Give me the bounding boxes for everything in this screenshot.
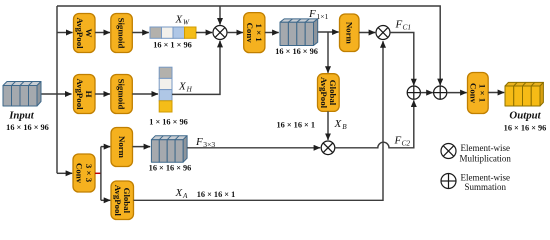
wire branch into top multiply [219, 6, 221, 25]
wire split to Global AvgPool bottom [101, 199, 110, 201]
svg-text:F: F [308, 8, 316, 20]
wire Sigmoid to X_W bar [132, 32, 149, 34]
svg-text:Norm: Norm [344, 22, 354, 45]
sum node 1 [407, 86, 420, 99]
box Norm top [340, 14, 360, 52]
box Norm bottom [111, 128, 133, 167]
wire split vertical [100, 147, 102, 201]
svg-text:Output: Output [509, 110, 541, 122]
box 1x1 Conv output [468, 73, 489, 114]
wire sum2 to output conv [447, 92, 467, 94]
svg-text:Norm: Norm [117, 136, 127, 159]
wire branch to 3x3 conv [57, 172, 72, 174]
svg-text:Conv: Conv [245, 23, 255, 44]
box W AvgPool [74, 14, 96, 53]
multiply node X_B [321, 141, 335, 155]
multiply node top [213, 26, 227, 40]
wire branch to W AvgPool [57, 32, 73, 34]
svg-text:Multiplication: Multiplication [459, 153, 511, 163]
box Global AvgPool middle [318, 74, 340, 112]
feature bar X_W [150, 27, 196, 38]
wire F_C1 to sum1 [390, 33, 414, 86]
svg-text:AvgPool: AvgPool [113, 185, 123, 217]
wire conv to output stack [488, 92, 504, 94]
wire sum1 to sum2 [420, 92, 432, 94]
box H AvgPool [74, 75, 96, 114]
tensor stack F1x1 [280, 19, 318, 46]
sum node 2 [434, 86, 447, 99]
svg-text:AvgPool: AvgPool [75, 78, 85, 110]
legend sum symbol [441, 174, 456, 189]
wire drop to Global AvgPool middle [327, 32, 329, 73]
svg-text:W: W [183, 19, 190, 27]
svg-text:B: B [342, 123, 347, 131]
box 3x3 Conv [73, 154, 95, 192]
wire residual top [57, 6, 440, 85]
svg-text:AvgPool: AvgPool [75, 17, 85, 49]
wire split to Norm bottom [101, 146, 110, 148]
wire X_A [134, 41, 384, 200]
svg-text:F: F [395, 19, 403, 31]
svg-text:1 × 16 × 96: 1 × 16 × 96 [149, 117, 188, 126]
svg-text:1×1: 1×1 [317, 12, 329, 21]
tensor stack F3x3 [151, 136, 187, 163]
svg-text:Conv: Conv [469, 83, 479, 104]
box 1x1 Conv top [244, 13, 265, 53]
svg-text:C1: C1 [403, 23, 412, 32]
legend multiply symbol [441, 144, 456, 159]
wire H AvgPool to Sigmoid middle [95, 93, 110, 95]
wire F1x1 to Norm [318, 31, 339, 33]
svg-text:F: F [394, 135, 402, 147]
wire F3x3 to X_B multiply [187, 147, 320, 149]
svg-text:16 × 16 × 96: 16 × 16 × 96 [275, 47, 318, 56]
wire multiply to 1x1 conv [227, 32, 243, 34]
svg-text:AvgPool: AvgPool [319, 77, 329, 109]
wire W AvgPool to Sigmoid [95, 32, 110, 34]
wire X_W bar to multiply [196, 32, 212, 34]
wire Sigmoid to X_H bar [132, 93, 158, 95]
box Global AvgPool bottom [111, 181, 134, 220]
svg-text:16 × 16 × 96: 16 × 16 × 96 [6, 123, 49, 132]
svg-text:X: X [334, 118, 343, 130]
svg-text:A: A [182, 192, 188, 200]
wire Global AvgPool to X_B multiply [327, 111, 329, 139]
wire conv to F1x1 stack [265, 32, 279, 34]
svg-text:F: F [195, 136, 203, 148]
svg-text:16 × 16 × 96: 16 × 16 × 96 [504, 123, 547, 132]
box Sigmoid top [111, 14, 133, 53]
svg-text:Input: Input [8, 110, 35, 122]
wire Norm to F3x3 stack [133, 146, 151, 148]
svg-text:Element-wise: Element-wise [460, 143, 509, 153]
wire Norm to F_C1 multiply [359, 32, 375, 34]
wire input to H AvgPool [41, 93, 72, 95]
svg-text:Sigmoid: Sigmoid [117, 79, 127, 110]
svg-text:Conv: Conv [75, 163, 85, 184]
svg-text:16 × 16 × 1: 16 × 16 × 1 [277, 121, 316, 130]
multiply node F_C1 [376, 26, 390, 40]
svg-text:16 × 1 × 96: 16 × 1 × 96 [153, 41, 192, 50]
svg-text:16 × 16 × 96: 16 × 16 × 96 [149, 163, 192, 172]
input tensor stack [3, 82, 41, 107]
wire X_H to top multiply [172, 41, 220, 95]
wire distribution vertical [56, 6, 58, 173]
output tensor stack [505, 82, 543, 106]
wire red segment [95, 172, 101, 174]
svg-text:H: H [186, 86, 193, 94]
svg-text:C2: C2 [402, 139, 411, 148]
box Sigmoid middle [111, 75, 133, 114]
svg-text:16 × 16 × 1: 16 × 16 × 1 [197, 190, 236, 199]
svg-text:Summation: Summation [464, 182, 506, 192]
wire F_C2 with hop [335, 100, 414, 147]
svg-text:Sigmoid: Sigmoid [117, 18, 127, 49]
feature bar X_H [159, 67, 172, 112]
